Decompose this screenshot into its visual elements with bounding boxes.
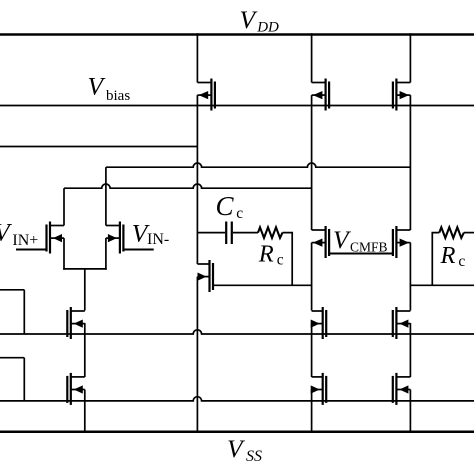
output line left (node OutL) (0, 146, 197, 148)
transistor CMFB right (393, 226, 411, 258)
wire line C : M1 drain to mid column, hops over x=105.9 and x=197.4 (64, 184, 312, 188)
transistor CMFB left (312, 226, 330, 258)
resistor Rc left zigzag (258, 227, 283, 238)
transistor NMOS B (311, 373, 327, 405)
svg-text:c: c (458, 253, 465, 270)
wire: M7 gate wire to mid column (213, 284, 312, 286)
bias hook 2 (left edge to gate rail 2) (0, 357, 24, 359)
wire: column x=311.6 (PMOS2 drain / 1st stage out left) (311, 33, 313, 82)
bias hook 1 (left edge to gate rail 1) (0, 289, 24, 291)
transistor NMOS A (311, 307, 327, 339)
capacitor Cc plates (225, 222, 227, 245)
svg-text:c: c (277, 251, 284, 268)
transistor M2 (input VIN-) (106, 222, 124, 254)
VDD rail (0, 33, 474, 35)
svg-text:DD: DD (256, 20, 279, 36)
transistor M7 (2nd stage NMOS) (197, 260, 213, 292)
wire: VCMFB gate wire (329, 253, 393, 255)
transistor M1 (input VIN+) (47, 222, 65, 254)
wire: Cc left lead (197, 232, 225, 234)
transistor NMOS D (393, 373, 411, 405)
svg-text:bias: bias (106, 88, 130, 104)
wire line B : M2 drain to right column, hops over x=197.4 and x=311.6 (106, 163, 411, 167)
svg-text:SS: SS (246, 448, 262, 465)
wire: VIN+ input lead (16, 249, 47, 251)
resistor Rc right zigzag (439, 227, 464, 238)
transistor NMOS C (393, 307, 411, 339)
svg-text:IN-: IN- (147, 231, 169, 248)
transistor M5 (tail cascode) (67, 307, 85, 339)
wire: M2 branch vertical x=105.9 (105, 167, 107, 225)
wire: Cc to Rc (233, 232, 258, 234)
wire: VIN- input lead (123, 249, 153, 251)
svg-text:C: C (216, 191, 235, 221)
wire: input pair source join bar (63, 268, 107, 270)
wire: M1 branch vertical x=64 (63, 188, 65, 225)
svg-text:c: c (236, 205, 243, 222)
transistor PMOS2 (1st stage load left) (312, 79, 330, 111)
Vbias rail (0, 105, 474, 107)
transistor PMOS3 (1st stage load right) (393, 79, 411, 111)
svg-text:R: R (258, 241, 274, 268)
NMOS cascode gate rail 1, hops over x=197.4 (0, 330, 474, 334)
wire: Rc left down to 1st stage output (283, 233, 293, 286)
transistor M6 (tail bottom) (67, 373, 85, 405)
svg-text:IN+: IN+ (12, 232, 38, 249)
wire: column x=410.4 (PMOS3 drain / 1st stage out right) (409, 33, 411, 82)
NMOS gate rail 2, hops over x=197.4 (0, 397, 474, 401)
svg-text:CMFB: CMFB (350, 239, 388, 254)
wire: column x=197.4 (PMOS1 drain / 2nd stage left) (196, 33, 198, 82)
wire: right column node to right edge (410, 284, 474, 286)
VSS rail (0, 430, 474, 433)
transistor PMOS1 (2nd stage current src left) (197, 79, 215, 111)
wire: Rc right down to right column node (432, 233, 439, 286)
svg-text:R: R (440, 242, 456, 269)
wire: right comp network lead from right edge (464, 232, 474, 234)
wire: tail column x=84.8 (84, 269, 86, 311)
